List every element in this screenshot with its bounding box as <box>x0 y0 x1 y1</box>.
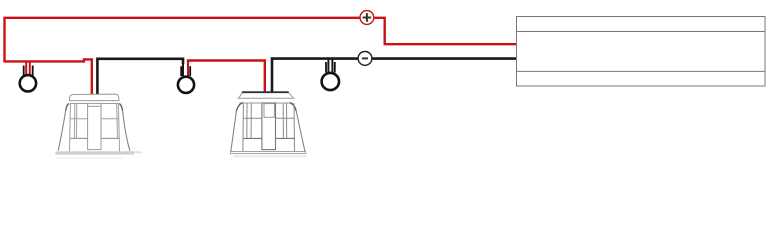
centre column <box>88 103 101 149</box>
connector C3 (wire nut, black+black) <box>322 59 339 91</box>
top bar (dark) <box>242 91 289 93</box>
body side right <box>119 104 122 111</box>
cap trapezoid <box>239 93 294 98</box>
top cap <box>69 94 119 101</box>
centre column <box>262 103 276 150</box>
terminal + (positive) <box>360 11 374 25</box>
speaker SPK2 <box>231 92 306 157</box>
inner box <box>242 103 245 151</box>
shelf lines <box>243 117 262 119</box>
base plate <box>231 152 306 154</box>
body side right <box>296 111 305 151</box>
amplifier box <box>517 17 766 87</box>
body side left <box>66 104 69 111</box>
wire red positive bus top <box>5 18 360 95</box>
wire black speaker2 to minus terminal <box>272 59 358 92</box>
wire red from plus terminal to amplifier <box>375 18 518 44</box>
base plate <box>55 151 134 154</box>
ear left <box>236 103 243 112</box>
connector C2 (wire nut, black+red) <box>178 61 194 93</box>
connector C1 (wire nut, red+red) <box>20 61 36 92</box>
body side left <box>231 111 237 151</box>
terminal - (negative) <box>358 52 372 66</box>
wire black speaker1 to connector2 <box>97 59 183 95</box>
wire black minus terminal to amplifier <box>372 57 517 60</box>
speaker SPK1 <box>55 94 141 158</box>
shelf lines <box>70 118 87 120</box>
ear right <box>290 103 297 112</box>
wire red connector2 to speaker2 <box>188 61 265 93</box>
inner box <box>69 103 72 151</box>
